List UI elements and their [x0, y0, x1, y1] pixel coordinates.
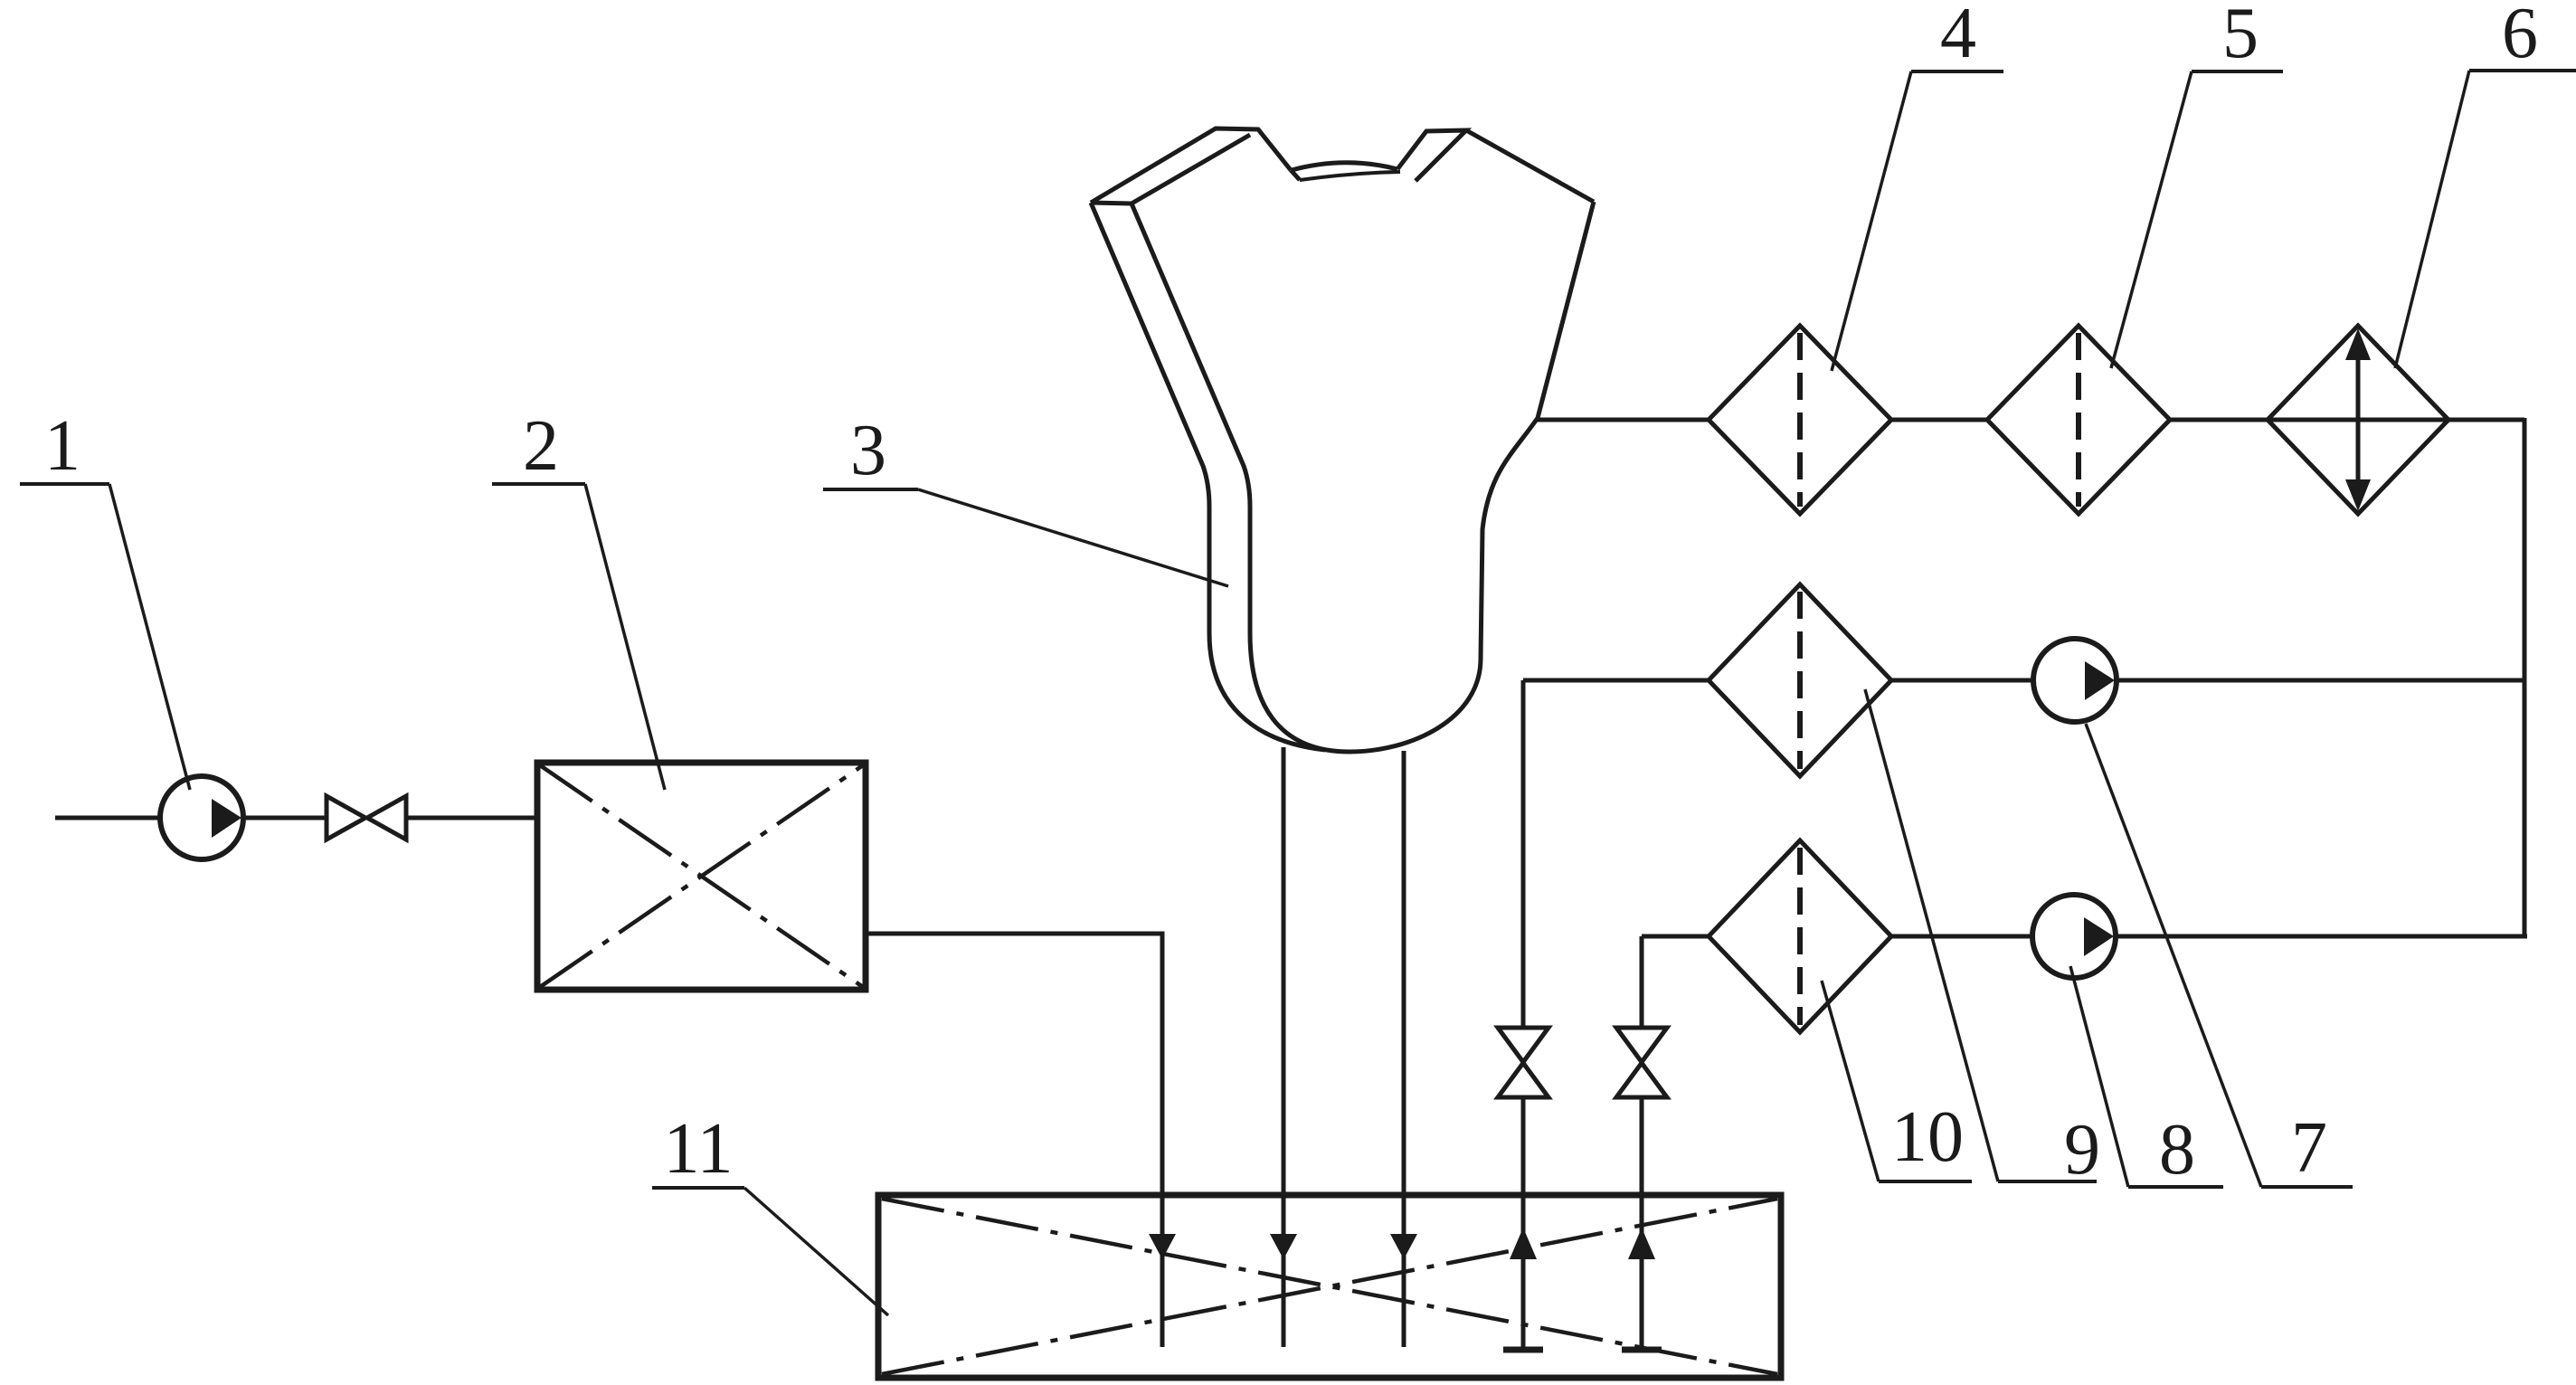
wire diamond 9 to pump 7 [1891, 678, 2033, 683]
leader 10 [1822, 981, 1879, 1181]
wire pump 1 to valve [243, 816, 327, 821]
pump 1 [160, 776, 243, 859]
vessel 3 outer left rim [1091, 128, 1291, 203]
wire valve to heat exchanger 2 [406, 816, 535, 821]
wire heat exchanger 2 outlet to tank (pipe A) [866, 934, 1162, 1347]
svg-text:1: 1 [44, 406, 80, 486]
wire diamond 6 through pipe [2268, 418, 2448, 422]
leader 3 [918, 489, 1228, 586]
leader 9 [1865, 689, 1998, 1181]
leader 11 [744, 1188, 888, 1315]
filter 9 dashed center line [1797, 592, 1803, 769]
wire valve A to tank (pipe D) [1521, 1097, 1526, 1348]
arrow down pipe A [1149, 1234, 1176, 1259]
svg-text:10: 10 [1891, 1097, 1964, 1177]
vessel 3 corner tick [1091, 203, 1132, 204]
vessel 3 right wall and bowl bottom and inner left wall [1132, 202, 1594, 752]
tank 11 (rectangle with X) [878, 1195, 1781, 1378]
svg-text:4: 4 [1940, 0, 1976, 73]
wire right wall vertical [2523, 418, 2527, 938]
vessel 3 top center arc [1292, 163, 1397, 170]
wire row2 corner to valve B [1640, 936, 1644, 1028]
device 6 arrowhead down [2345, 479, 2371, 511]
vessel 3 lower center arc [1300, 172, 1400, 180]
pipe E foot bar [1622, 1347, 1662, 1353]
leader 4 [1832, 71, 1911, 371]
heat exchanger 2 diagonal a [540, 765, 863, 987]
leader 5 [2111, 71, 2192, 368]
pump 8 [2032, 895, 2116, 978]
arrow up pipe D [1510, 1228, 1537, 1259]
svg-text:7: 7 [2291, 1108, 2327, 1188]
svg-text:8: 8 [2159, 1110, 2195, 1190]
wire pump 8 to right wall corner [2116, 934, 2527, 939]
label 2 underline [492, 482, 585, 486]
filter 5 (diamond) [1987, 326, 2170, 514]
filter 5 dashed center line [2076, 333, 2081, 507]
arrow up pipe E [1628, 1228, 1655, 1259]
svg-text:6: 6 [2502, 0, 2538, 73]
pump 7 [2033, 639, 2117, 722]
svg-text:5: 5 [2222, 0, 2259, 73]
leader 7 [2086, 724, 2261, 1187]
wire top pipe vessel to diamond 4 [1538, 418, 1709, 422]
leader 1 [109, 484, 190, 790]
wire valve B to tank (pipe E) [1640, 1097, 1644, 1348]
leader 6 [2395, 71, 2469, 368]
vessel 3 outer left wall [1091, 203, 1325, 750]
wire vessel stem right (pipe C) [1402, 751, 1406, 1347]
wire diamond 6 to right wall [2448, 418, 2524, 422]
label 6 underline [2469, 69, 2576, 72]
heat exchanger 2 (rectangle with X) [537, 763, 866, 990]
vessel 3 notch small v [1291, 170, 1300, 180]
vessel 3 inner rim [1132, 135, 1250, 204]
wire row1 left vertical to valve A [1521, 680, 1526, 1028]
label 8 underline [2128, 1185, 2223, 1189]
label 9 underline [1998, 1180, 2097, 1183]
wire diamond 4 to diamond 5 [1891, 418, 1987, 422]
filter 9 (diamond) [1709, 584, 1891, 776]
wire inlet line to pump 1 [55, 816, 161, 821]
filter 4 (diamond) [1709, 326, 1891, 514]
wire diamond 10 to pump 8 [1891, 934, 2032, 939]
leader 2 [585, 484, 665, 790]
device 6 arrowhead up [2345, 328, 2371, 360]
label 5 underline [2192, 70, 2283, 73]
arrow down pipe B [1270, 1234, 1297, 1259]
label 11 underline [652, 1186, 744, 1190]
wire vessel stem left (pipe B) [1282, 747, 1286, 1347]
wire row1 horizontal to diamond 9 [1523, 678, 1709, 683]
label 1 underline [20, 482, 109, 486]
svg-text:3: 3 [850, 411, 886, 490]
tank 11 diagonal a [882, 1199, 1777, 1374]
vessel 3 right notch [1397, 130, 1466, 181]
device 6 (diamond with vertical double arrow) [2268, 326, 2448, 514]
valve B (vertical bowtie) [1616, 1028, 1667, 1097]
label 7 underline [2261, 1185, 2353, 1189]
heat exchanger 2 diagonal b [540, 765, 863, 987]
arrow down pipe C [1390, 1234, 1417, 1259]
wire diamond 5 to diamond 6 [2170, 418, 2268, 422]
valve (bowtie) between pump 1 and heat exchanger 2 [327, 796, 406, 840]
pipe D foot bar [1503, 1347, 1543, 1353]
svg-text:9: 9 [2064, 1110, 2100, 1190]
label 3 underline [823, 488, 918, 491]
tank 11 diagonal b [882, 1199, 1777, 1374]
vessel 3 right rim [1466, 130, 1594, 202]
device 6 arrow shaft [2356, 344, 2361, 496]
leader 8 [2070, 966, 2128, 1187]
label 10 underline [1879, 1180, 1972, 1183]
filter 10 dashed center line [1797, 848, 1803, 1025]
wire pump 7 to right wall [2117, 678, 2524, 683]
svg-text:2: 2 [523, 406, 559, 486]
filter 4 dashed center line [1797, 333, 1803, 507]
valve A (vertical bowtie) [1498, 1028, 1548, 1097]
wire row2 horizontal to diamond 10 [1642, 934, 1709, 939]
label 4 underline [1911, 70, 2003, 73]
filter 10 (diamond) [1709, 840, 1891, 1032]
svg-text:11: 11 [663, 1109, 733, 1189]
